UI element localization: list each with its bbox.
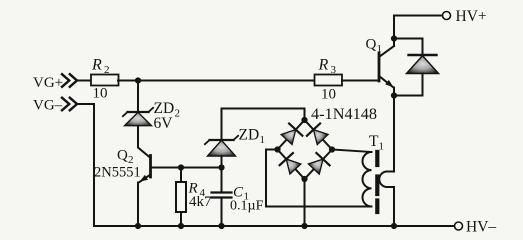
- bridge diode D3 (bottom-left): [280, 153, 302, 175]
- wire diode D to emitter node: [394, 74, 423, 96]
- wire R2 to R3: [118, 80, 315, 82]
- zener ZD2: [123, 108, 153, 126]
- svg-text:R: R: [318, 57, 329, 74]
- svg-text:VG–: VG–: [33, 98, 63, 114]
- svg-text:1: 1: [260, 134, 266, 146]
- svg-text:1: 1: [377, 43, 383, 55]
- wire R3 to Q1 base: [342, 80, 378, 82]
- svg-text:4-1N4148: 4-1N4148: [311, 104, 377, 123]
- svg-text:HV–: HV–: [466, 219, 496, 234]
- svg-text:VG+: VG+: [33, 75, 63, 91]
- node VG- input chevron: [62, 98, 77, 111]
- node VG+ input chevron: [62, 74, 77, 87]
- svg-text:R: R: [91, 57, 102, 74]
- svg-text:2: 2: [104, 64, 110, 76]
- wire Q1 collector up to HV+: [394, 16, 443, 47]
- transformer T1 primary: [332, 150, 372, 207]
- bottom rail wire: [94, 225, 455, 227]
- bridge diode D2 (right-top): [307, 123, 329, 145]
- resistor R4: [176, 168, 186, 227]
- node A junction: [135, 77, 141, 83]
- node bridge right: [329, 146, 335, 152]
- svg-text:6V: 6V: [154, 115, 174, 132]
- capacitor C1: [212, 168, 232, 227]
- resistor R2: [91, 75, 119, 86]
- svg-text:2N5551: 2N5551: [94, 165, 141, 181]
- node Q1 emitter junction: [391, 92, 397, 98]
- resistor R3: [315, 75, 343, 86]
- node ZD1/C1 junction: [218, 164, 224, 170]
- terminal HV+: [443, 12, 451, 20]
- svg-text:1: 1: [379, 141, 385, 153]
- svg-text:10: 10: [321, 87, 336, 103]
- svg-text:4k7: 4k7: [189, 194, 212, 210]
- svg-text:Q: Q: [117, 148, 128, 164]
- diode bridge 4-1N4148: [278, 120, 333, 179]
- wire VG+ to R2: [77, 80, 91, 82]
- svg-text:3: 3: [331, 64, 337, 76]
- bridge diode D4 (bottom-right): [307, 153, 329, 175]
- diode D (freewheel): [407, 55, 439, 74]
- node dot bridge bottom on rail: [301, 223, 307, 229]
- wire ZD2 to Q2 collector: [138, 126, 150, 158]
- wire Q2 emitter to bottom rail: [137, 183, 139, 227]
- node dot Q2 emitter on rail: [135, 223, 141, 229]
- node bridge top: [301, 117, 307, 123]
- svg-text:T: T: [369, 133, 379, 150]
- svg-text:10: 10: [93, 86, 108, 102]
- node dot R4 on rail: [178, 223, 184, 229]
- svg-text:ZD: ZD: [239, 127, 260, 144]
- svg-text:0.1µF: 0.1µF: [230, 199, 264, 214]
- wire base node to ZD1/C1 node: [181, 167, 222, 169]
- node dot secondary on rail: [391, 223, 397, 229]
- node bridge left: [274, 146, 280, 152]
- wire VG- down to bottom rail: [77, 104, 94, 226]
- transformer T1 secondary: [379, 96, 394, 227]
- transistor Q2: [138, 156, 181, 185]
- svg-text:HV+: HV+: [456, 8, 487, 25]
- transistor Q1: [379, 46, 395, 96]
- node dot C1 on rail: [218, 223, 224, 229]
- node Q1 collector junction: [391, 35, 397, 41]
- transformer T1 core: [375, 152, 379, 212]
- node bridge bottom: [301, 176, 307, 182]
- zener ZD1: [205, 136, 238, 168]
- svg-text:2: 2: [175, 108, 181, 120]
- bridge diode D1 (left-top): [280, 124, 302, 146]
- svg-text:Q: Q: [366, 37, 377, 53]
- wire bridge bottom to bottom rail: [304, 179, 306, 226]
- wire node A down to ZD2: [137, 81, 139, 113]
- node Q2 base junction: [178, 164, 184, 170]
- wire collector node to diode D: [394, 39, 423, 56]
- wire bridge left to primary bottom: [266, 150, 372, 207]
- wire ZD1 top to bridge top: [222, 109, 305, 141]
- terminal HV-: [455, 222, 463, 230]
